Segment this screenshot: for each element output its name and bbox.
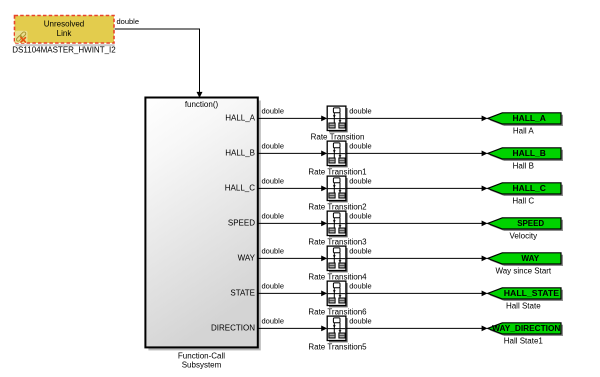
- svg-text:double: double: [117, 17, 140, 26]
- svg-text:double: double: [262, 247, 285, 256]
- wire STATE -> Rate Transition6: [258, 291, 328, 297]
- wire HALL_C -> Rate Transition2: [258, 186, 328, 192]
- svg-text:double: double: [349, 142, 372, 151]
- svg-text:Rate Transition3: Rate Transition3: [308, 238, 367, 247]
- svg-text:Hall State: Hall State: [506, 302, 541, 311]
- svg-text:double: double: [349, 317, 372, 326]
- goto block HALL_B: [488, 148, 563, 161]
- svg-text:double: double: [262, 107, 285, 116]
- svg-text:Function-Call: Function-Call: [178, 351, 225, 360]
- label Function-Call Subsystem: [178, 351, 225, 369]
- svg-text:Way since Start: Way since Start: [495, 267, 551, 276]
- goto block WAY_DIRECTION: [488, 323, 563, 336]
- svg-text:double: double: [349, 177, 372, 186]
- wire WAY -> Rate Transition4: [258, 256, 328, 262]
- wire Rate Transition -> Goto HALL_A: [346, 116, 488, 122]
- wire Rate Transition6 -> Goto HALL_STATE: [346, 291, 488, 297]
- svg-text:double: double: [349, 282, 372, 291]
- block Rate Transition2: [327, 176, 348, 202]
- svg-text:HALL_A: HALL_A: [513, 114, 547, 123]
- svg-text:Link: Link: [57, 29, 73, 38]
- svg-text:DIRECTION: DIRECTION: [211, 323, 255, 332]
- svg-text:double: double: [262, 282, 285, 291]
- goto block HALL_STATE: [488, 288, 563, 301]
- svg-text:Hall A: Hall A: [513, 127, 535, 136]
- svg-text:WAY: WAY: [521, 254, 539, 263]
- svg-text:double: double: [349, 212, 372, 221]
- svg-text:HALL_B: HALL_B: [225, 148, 255, 157]
- block Rate Transition6: [327, 281, 348, 307]
- block Rate Transition3: [327, 211, 348, 237]
- svg-text:WAY: WAY: [238, 253, 256, 262]
- goto block WAY: [488, 253, 563, 266]
- svg-text:Hall B: Hall B: [513, 162, 534, 171]
- wire Rate Transition1 -> Goto HALL_B: [346, 151, 488, 157]
- svg-text:Hall C: Hall C: [512, 197, 534, 206]
- svg-text:double: double: [262, 177, 285, 186]
- goto block HALL_A: [488, 113, 563, 126]
- wire Rate Transition2 -> Goto HALL_C: [346, 186, 488, 192]
- svg-text:HALL_B: HALL_B: [513, 149, 547, 158]
- svg-text:Rate Transition6: Rate Transition6: [308, 308, 367, 317]
- svg-text:double: double: [262, 212, 285, 221]
- subsystem Function-Call Subsystem: [145, 98, 260, 351]
- wire DIRECTION -> Rate Transition5: [258, 326, 328, 332]
- svg-text:HALL_A: HALL_A: [225, 113, 255, 122]
- goto block HALL_C: [488, 183, 563, 196]
- block Rate Transition: [327, 106, 348, 132]
- svg-text:Rate Transition: Rate Transition: [311, 133, 365, 142]
- svg-text:Unresolved: Unresolved: [44, 20, 84, 29]
- svg-text:STATE: STATE: [230, 288, 255, 297]
- block Rate Transition1: [327, 141, 348, 167]
- goto block SPEED: [488, 218, 563, 231]
- wire Rate Transition5 -> Goto WAY_DIRECTION: [346, 326, 488, 332]
- svg-text:Rate Transition5: Rate Transition5: [308, 343, 367, 352]
- svg-text:Hall State1: Hall State1: [504, 337, 544, 346]
- svg-text:DS1104MASTER_HWINT_I2: DS1104MASTER_HWINT_I2: [12, 46, 116, 55]
- block DS1104MASTER_HWINT_I2 (Unresolved Link): [15, 16, 115, 47]
- wire HALL_A -> Rate Transition: [258, 116, 328, 122]
- svg-text:function(): function(): [185, 100, 219, 109]
- svg-text:SPEED: SPEED: [228, 218, 255, 227]
- block Rate Transition4: [327, 246, 348, 272]
- wire DS1104MASTER_HWINT_I2 -> Function-Call Subsystem trigger: [115, 29, 203, 98]
- icon broken-link (chain with red x): [15, 31, 28, 43]
- svg-text:WAY_DIRECTION: WAY_DIRECTION: [492, 324, 560, 333]
- svg-text:double: double: [262, 142, 285, 151]
- svg-text:Rate Transition2: Rate Transition2: [308, 203, 367, 212]
- svg-text:Rate Transition4: Rate Transition4: [308, 273, 367, 282]
- block Rate Transition5: [327, 316, 348, 342]
- svg-text:HALL_C: HALL_C: [513, 184, 547, 193]
- svg-text:Rate Transition1: Rate Transition1: [308, 168, 367, 177]
- wire HALL_B -> Rate Transition1: [258, 151, 328, 157]
- wire Rate Transition3 -> Goto SPEED: [346, 221, 488, 227]
- svg-text:double: double: [349, 247, 372, 256]
- svg-text:double: double: [262, 317, 285, 326]
- svg-text:Velocity: Velocity: [510, 232, 538, 241]
- svg-text:HALL_STATE: HALL_STATE: [504, 289, 560, 298]
- wire SPEED -> Rate Transition3: [258, 221, 328, 227]
- svg-text:Subsystem: Subsystem: [182, 360, 222, 369]
- svg-text:HALL_C: HALL_C: [225, 183, 255, 192]
- svg-text:double: double: [349, 107, 372, 116]
- wire Rate Transition4 -> Goto WAY: [346, 256, 488, 262]
- svg-text:SPEED: SPEED: [517, 219, 544, 228]
